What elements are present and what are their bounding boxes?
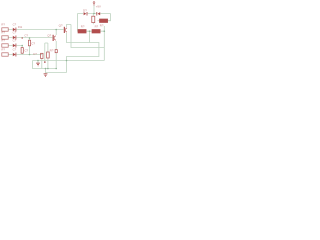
svg-text:R?: R? — [1, 31, 5, 35]
svg-text:C?: C? — [24, 33, 28, 37]
svg-text:R?: R? — [95, 25, 99, 29]
svg-text:R?: R? — [1, 39, 5, 43]
svg-text:+9V: +9V — [96, 5, 101, 9]
svg-text:D?: D? — [83, 8, 87, 12]
svg-text:Q?: Q? — [59, 23, 63, 27]
svg-text:C?: C? — [13, 48, 17, 52]
svg-text:R?: R? — [1, 23, 5, 27]
svg-text:R?: R? — [1, 48, 5, 52]
svg-text:C?: C? — [31, 41, 35, 45]
svg-text:C?: C? — [13, 23, 17, 27]
svg-text:IN1: IN1 — [18, 25, 23, 29]
svg-text:R?: R? — [50, 49, 54, 53]
svg-text:C?: C? — [13, 31, 17, 35]
svg-text:C?: C? — [24, 49, 28, 53]
svg-text:C?: C? — [33, 52, 37, 56]
svg-text:R?: R? — [81, 25, 85, 29]
svg-text:Q?: Q? — [47, 33, 51, 37]
svg-text:C?: C? — [13, 39, 17, 43]
svg-text:R?: R? — [100, 23, 104, 27]
